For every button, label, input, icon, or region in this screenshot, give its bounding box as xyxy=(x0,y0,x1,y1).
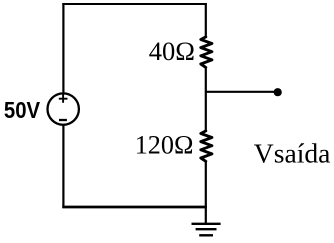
svg-text:40Ω: 40Ω xyxy=(149,36,195,66)
resistor 120Ω xyxy=(201,131,212,161)
wire bottom xyxy=(62,206,207,209)
resistor 40Ω xyxy=(201,37,212,68)
svg-text:50V: 50V xyxy=(4,97,41,123)
voltage source 50V xyxy=(48,93,79,124)
node Vsaida terminal xyxy=(274,88,282,96)
wire top xyxy=(62,3,206,5)
wire output xyxy=(206,91,274,93)
svg-text:Vsaída: Vsaída xyxy=(254,137,331,168)
wire left lower xyxy=(62,124,64,208)
wire left upper xyxy=(62,3,64,95)
wire right lower xyxy=(205,161,207,224)
wire right upper xyxy=(205,3,207,38)
ground xyxy=(192,224,221,236)
wire right middle xyxy=(205,67,207,132)
svg-text:120Ω: 120Ω xyxy=(135,130,194,159)
